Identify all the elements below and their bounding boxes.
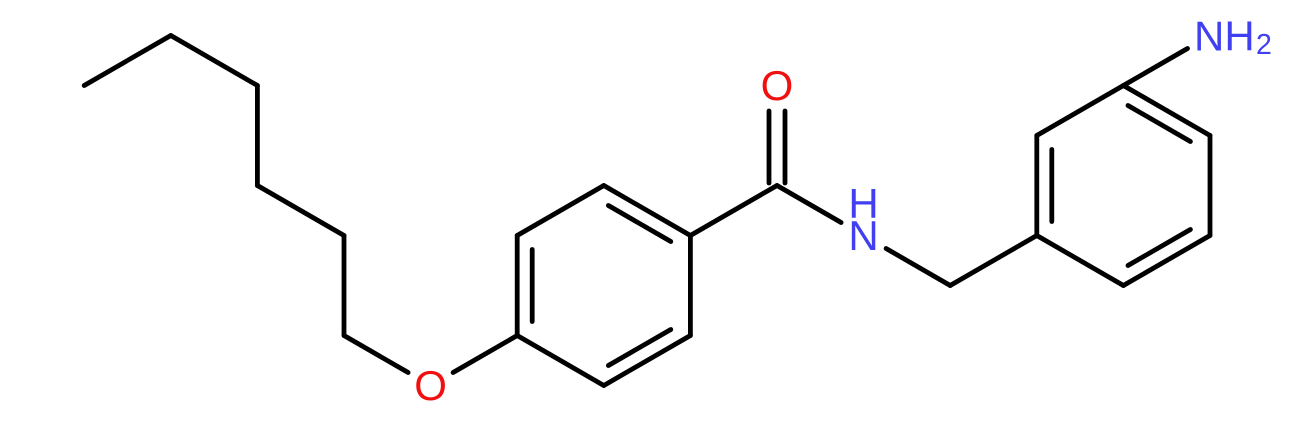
bond C1-O ether [344,336,408,373]
bond CH2-ring2 [950,236,1037,286]
ring2 benzene edge NE [1123,86,1210,136]
ring1 benzene edge W [515,236,520,336]
ring2 benzene edge SE [1123,236,1210,286]
ring2 benzene edge NE inner double [1128,106,1190,142]
ring2 benzene edge W [1034,136,1039,236]
wire hexyl chain C2-C1 [342,236,347,336]
bond C=O double line right [783,111,788,183]
svg-text:NH: NH [1194,13,1255,60]
ring1 benzene edge W inner double [530,250,535,322]
ring1 benzene edge E [688,236,693,336]
ring2 benzene edge SE inner double [1128,230,1190,266]
bond C=O double line left [767,111,772,183]
ring1 benzene edge SE [604,336,691,386]
ring1 benzene edge SE inner double [608,330,670,366]
wire hexyl chain C5-C4 [171,36,258,86]
ring1 benzene edge SW [517,336,604,386]
svg-text:2: 2 [1256,29,1272,61]
ring1 benzene edge NE inner double [608,206,670,242]
bond ring1-carbonyl C [690,186,777,236]
ring1 benzene edge NE [604,186,691,236]
bond N-CH2 [886,249,950,286]
wire hexyl chain C3-C2 [257,186,344,236]
bond carbonyl C-N amide [777,186,841,223]
bond O ether-ring1 [453,336,517,373]
svg-text:O: O [761,62,794,109]
wire hexyl chain C6-C5 [84,36,171,86]
ring2 benzene edge E [1208,136,1213,236]
ring1 benzene edge NW [517,186,604,236]
bond ring2-NH2 [1123,49,1187,86]
ring2 benzene edge SW [1037,236,1124,286]
ring2 benzene edge W inner double [1049,150,1054,222]
svg-text:N: N [848,212,878,259]
svg-text:O: O [414,362,447,409]
ring2 benzene edge NW [1037,86,1124,136]
wire hexyl chain C4-C3 [255,86,260,186]
